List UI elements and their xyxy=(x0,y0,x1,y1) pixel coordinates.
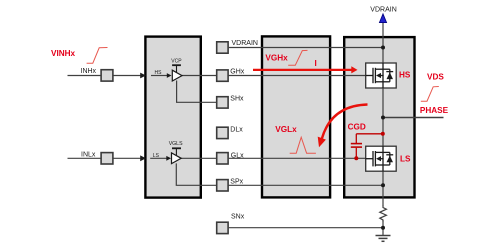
svg-text:SNx: SNx xyxy=(231,214,245,221)
svg-text:HS: HS xyxy=(399,70,411,79)
svg-text:VGLS: VGLS xyxy=(169,141,183,147)
svg-text:VDRAIN: VDRAIN xyxy=(370,7,396,14)
svg-text:GHx: GHx xyxy=(230,68,245,75)
svg-text:VGLx: VGLx xyxy=(275,125,297,134)
svg-text:SPx: SPx xyxy=(230,179,243,186)
svg-text:HS: HS xyxy=(155,70,163,76)
svg-text:INHx: INHx xyxy=(81,68,97,75)
svg-text:VINHx: VINHx xyxy=(51,49,76,58)
svg-text:DLx: DLx xyxy=(230,127,243,134)
svg-text:SHx: SHx xyxy=(230,96,244,103)
svg-text:INLx: INLx xyxy=(81,151,96,158)
svg-text:LS: LS xyxy=(400,155,411,164)
svg-text:PHASE: PHASE xyxy=(420,106,449,115)
svg-text:LS: LS xyxy=(153,153,160,159)
svg-text:VGHx: VGHx xyxy=(265,53,288,62)
svg-text:VCP: VCP xyxy=(171,59,182,65)
svg-text:GLx: GLx xyxy=(231,152,244,159)
svg-text:I: I xyxy=(315,59,317,68)
svg-text:VDS: VDS xyxy=(427,73,444,82)
svg-text:VDRAIN: VDRAIN xyxy=(232,40,258,47)
svg-text:CGD: CGD xyxy=(348,123,366,132)
